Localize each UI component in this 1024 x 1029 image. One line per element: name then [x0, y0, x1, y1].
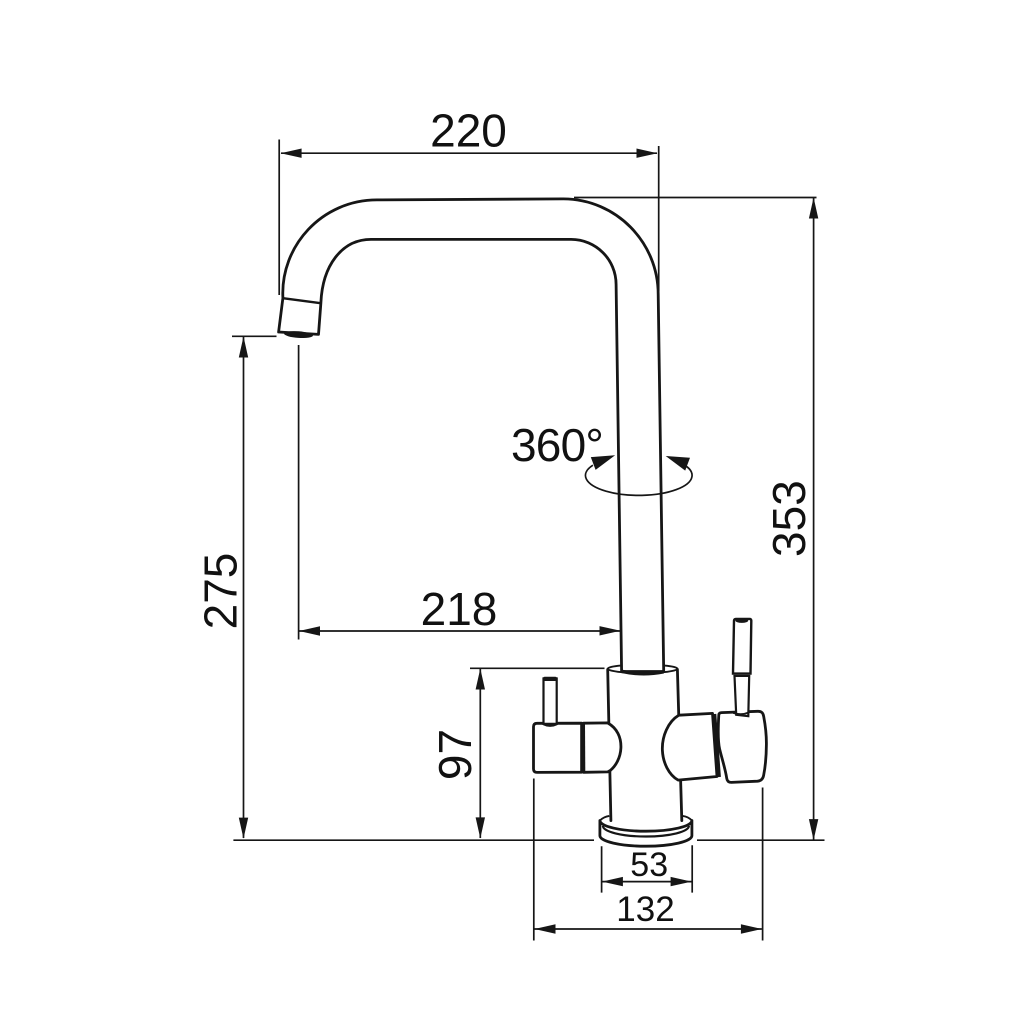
spout tube with nozzle and riser pipe — [279, 199, 664, 672]
faucet body (main vertical cylinder) — [608, 669, 682, 821]
dim 218 extension line — [298, 345, 300, 640]
dim 275 line — [243, 337, 245, 838]
left lever stick — [544, 679, 557, 724]
dim 353 top arrow — [809, 198, 818, 219]
left arm cone connector — [584, 723, 621, 772]
nozzle separation line — [283, 298, 321, 303]
svg-text:360°: 360° — [511, 419, 603, 471]
dim 275 top arrow — [239, 337, 248, 358]
svg-text:353: 353 — [763, 480, 815, 557]
dim 132 line — [535, 928, 762, 930]
dim 53 right arrow — [671, 877, 692, 886]
dim 218 right arrow — [600, 626, 621, 635]
dim 53 line — [602, 881, 692, 883]
svg-text:132: 132 — [616, 890, 674, 929]
body top ellipse rim — [608, 665, 678, 673]
dim 353 top extension line — [574, 197, 817, 199]
right lever top cap (dark) — [735, 618, 748, 623]
dim 132 left arrow — [535, 924, 556, 933]
pipe insertion dark arc at body top — [622, 671, 664, 673]
dim 353 bottom arrow — [809, 819, 818, 840]
svg-text:53: 53 — [630, 846, 668, 884]
dim 218 left arrow — [299, 626, 320, 635]
swivel arc right arrow — [666, 456, 690, 471]
right handle separator ring — [714, 714, 719, 777]
deck reference line — [233, 839, 824, 841]
dim 220 right arrow — [637, 149, 658, 158]
dim 53 left arrow — [602, 877, 623, 886]
flange chamfer arc — [603, 826, 689, 837]
dim 97 line — [479, 669, 481, 838]
right handle / mixer body — [718, 711, 766, 782]
dim 275 top extension line — [232, 335, 277, 337]
right lever upper section — [733, 619, 751, 674]
svg-text:275: 275 — [195, 553, 247, 630]
dim 220 left arrow — [281, 149, 302, 158]
left lever insertion dip — [543, 724, 557, 726]
dim 97 top extension line — [470, 667, 605, 669]
dim 275 bottom arrow — [239, 818, 248, 839]
swivel rotation arc — [585, 463, 692, 495]
dim 353 line — [813, 198, 815, 840]
dim 220 extension lines — [279, 140, 659, 296]
svg-text:97: 97 — [429, 729, 481, 780]
dim 97 bottom arrow — [476, 817, 485, 838]
right arm cone connector — [662, 713, 717, 780]
left handle separator ring — [581, 723, 585, 772]
base flange escutcheon — [600, 821, 692, 847]
dim 220 line — [281, 152, 657, 154]
svg-text:220: 220 — [430, 105, 507, 157]
dim 97 top arrow — [476, 669, 485, 690]
dim 53 extension lines — [602, 845, 693, 892]
flange back rim slivers — [600, 816, 692, 821]
aerator tip (dark) — [284, 330, 313, 339]
dim 218 line — [299, 630, 620, 632]
swivel arc left arrow — [591, 455, 615, 470]
right lever insertion dip — [733, 713, 748, 715]
right lever lower section — [735, 676, 750, 716]
left handle / filter valve body — [534, 723, 582, 772]
left lever top cap (dark) — [543, 677, 558, 681]
dim 132 extension lines — [534, 779, 763, 941]
dim 132 right arrow — [741, 924, 762, 933]
svg-text:218: 218 — [421, 583, 498, 635]
